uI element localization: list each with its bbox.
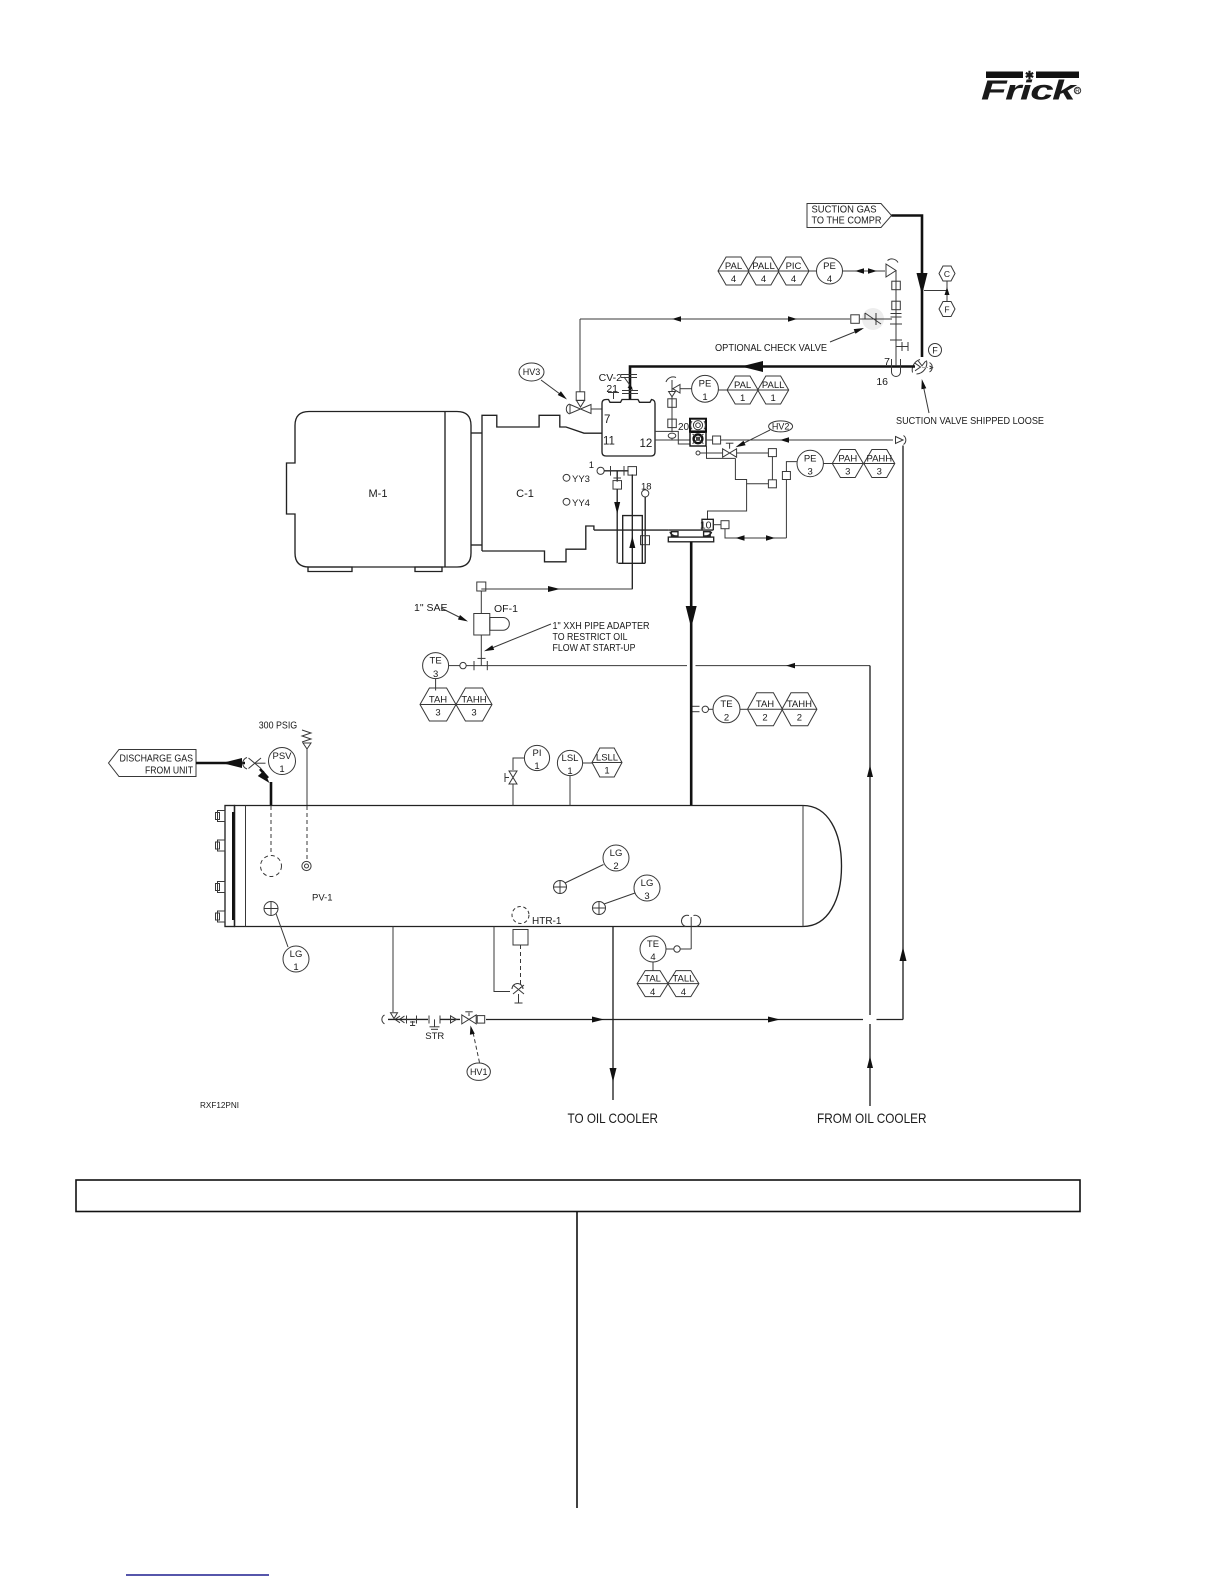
wire port 12 line — [655, 439, 690, 441]
svg-text:3: 3 — [471, 708, 476, 719]
instrument tag PALL-1 — [758, 376, 789, 404]
flange bolts — [216, 811, 226, 822]
small circle tap — [696, 451, 700, 455]
svg-text:2: 2 — [724, 713, 729, 724]
leader arrow: suction valve shipped loose — [923, 382, 930, 413]
compressor C-1 outline bottom — [482, 526, 594, 562]
svg-text:1" SAE: 1" SAE — [414, 602, 448, 614]
svg-text:F: F — [944, 305, 949, 315]
svg-text:1: 1 — [740, 393, 745, 404]
svg-text:3: 3 — [433, 669, 438, 680]
check valve at top of riser — [896, 436, 906, 445]
svg-text:TAHH: TAHH — [461, 694, 486, 705]
valve label HV3 — [519, 363, 544, 381]
pilot regulator valve on suction sense line — [886, 259, 898, 277]
wire OF-1 down — [480, 635, 482, 666]
wire vessel drain to oil pipe — [392, 927, 394, 1013]
oil injection riser into compressor — [631, 474, 633, 589]
instrument LG-3 — [634, 875, 660, 902]
compressor discharge line to flange — [594, 529, 668, 531]
svg-text:LSLL: LSLL — [596, 752, 618, 763]
svg-text:DISCHARGE GAS: DISCHARGE GAS — [120, 753, 194, 764]
wire to PE-3 — [785, 479, 787, 538]
wire sense drop to HV3 — [579, 319, 581, 392]
TE-2 tap on oil return line — [693, 705, 700, 707]
heater drain valve — [512, 984, 524, 1003]
wire oil cooler return horizontal — [696, 665, 871, 667]
svg-text:4: 4 — [731, 274, 736, 285]
svg-text:PE: PE — [804, 453, 817, 464]
discharge angle valve — [243, 758, 266, 770]
wire PE-4 to pilot valve — [843, 270, 886, 272]
sense line x=896 down to suction line — [895, 271, 897, 367]
leader HV1 — [473, 1030, 480, 1063]
instrument TE-4 — [640, 936, 666, 963]
svg-text:PIC: PIC — [786, 261, 802, 272]
sight glass LG-3 — [593, 902, 606, 915]
svg-text:1: 1 — [534, 761, 539, 772]
wire port1 drop — [616, 489, 618, 563]
sight glass LG-1 — [264, 902, 278, 916]
instrument tag TAH-3 — [420, 688, 456, 721]
riser x=903 down to oil pipe — [902, 446, 904, 1020]
port 21 stub — [608, 392, 619, 394]
relief pilot above port 7 — [666, 377, 680, 397]
svg-text:4: 4 — [681, 987, 686, 998]
wire main oil pipe — [486, 1019, 863, 1021]
instrument tag PIC-4 — [778, 257, 809, 285]
svg-text:TAL: TAL — [644, 973, 661, 984]
instrument PE-4 — [817, 258, 843, 285]
svg-text:STR: STR — [425, 1031, 444, 1042]
svg-text:4: 4 — [791, 274, 796, 285]
sight glass LG-2 — [554, 881, 567, 894]
instrument tag TAL-4 — [637, 971, 668, 998]
svg-text:PV-1: PV-1 — [312, 893, 333, 904]
oil filter OF-1 — [480, 591, 482, 613]
valve HV2 — [723, 449, 737, 457]
heater HTR-1 — [512, 907, 529, 924]
wire port10 branch — [725, 529, 786, 539]
svg-text:1: 1 — [589, 460, 594, 471]
wire oil return (thick) down to separator — [690, 542, 693, 806]
instrument tag TAH-2 — [748, 693, 783, 726]
optional check valve symbol — [860, 313, 892, 325]
svg-text:1: 1 — [702, 392, 707, 403]
svg-text:1: 1 — [567, 766, 572, 777]
svg-text:Frick: Frick — [981, 75, 1078, 106]
tee fitting — [896, 346, 908, 348]
unloader loop — [623, 516, 643, 564]
svg-text:F: F — [932, 345, 938, 355]
CV-2 check valve symbol on thick line — [621, 375, 638, 394]
svg-text:M-1: M-1 — [369, 488, 388, 500]
svg-text:LG: LG — [290, 949, 303, 960]
table header band — [76, 1180, 1080, 1212]
svg-text:LG: LG — [610, 848, 623, 859]
wire oil supply horizontal — [481, 588, 632, 590]
svg-text:20: 20 — [678, 422, 690, 433]
svg-text:C-1: C-1 — [516, 488, 534, 500]
thick elbow into vessel — [260, 769, 268, 778]
compressor C-1 outline top — [482, 415, 602, 551]
instrument tag PAL-1 — [727, 376, 758, 404]
svg-text:FROM UNIT: FROM UNIT — [145, 765, 193, 776]
solenoid block SV — [690, 419, 706, 446]
gray highlight behind check valve — [862, 308, 884, 330]
svg-text:SUCTION GAS: SUCTION GAS — [812, 205, 877, 216]
solenoid outlet down — [707, 446, 736, 458]
instrument tag PAL-4 — [718, 257, 749, 285]
wire drop to port 10 — [708, 484, 747, 520]
instrument TE-3 — [423, 653, 449, 680]
vessel PV-1 shell — [235, 806, 842, 927]
wire line 12 continues right of solenoid — [706, 439, 713, 441]
strainer STR — [428, 1016, 430, 1024]
wire optional check valve line — [580, 318, 850, 320]
svg-text:SUCTION VALVE SHIPPED LOOSE: SUCTION VALVE SHIPPED LOOSE — [896, 415, 1044, 427]
svg-text:FROM OIL COOLER: FROM OIL COOLER — [817, 1110, 927, 1126]
wire TE-3 sense — [449, 665, 460, 667]
flow arrow left suction — [741, 361, 763, 372]
svg-text:7: 7 — [884, 356, 890, 368]
union + drain plug — [406, 1016, 408, 1024]
svg-text:4: 4 — [827, 274, 832, 285]
wire discharge gas (thick) — [196, 762, 245, 765]
sense line port7 to squares — [671, 397, 673, 432]
wire C-F connector — [924, 290, 947, 292]
orifice lens — [668, 433, 676, 438]
svg-text:21: 21 — [606, 383, 618, 395]
svg-text:OPTIONAL CHECK VALVE: OPTIONAL CHECK VALVE — [715, 342, 827, 354]
coupling housing lines — [471, 432, 482, 434]
instrument F (circle) — [929, 344, 942, 357]
motor M-1 body — [287, 412, 472, 568]
svg-text:HV2: HV2 — [772, 422, 790, 432]
PI gauge valve — [505, 771, 517, 784]
svg-text:3: 3 — [877, 467, 882, 478]
svg-text:7: 7 — [604, 414, 610, 426]
svg-text:12: 12 — [640, 438, 653, 450]
svg-text:TALL: TALL — [672, 973, 694, 984]
wire oil injection sense to check riser — [721, 439, 893, 441]
svg-text:4: 4 — [650, 987, 655, 998]
footer link line — [126, 1574, 269, 1576]
suction check housing box — [602, 400, 655, 457]
svg-text:PAL: PAL — [734, 380, 751, 391]
flag SUCTION GAS TO THE COMPR — [807, 204, 892, 228]
valve HV1 — [462, 1015, 476, 1024]
instrument tag LSLL-1 — [592, 748, 622, 777]
leader HV3 — [541, 380, 564, 397]
wire FROM OIL COOLER riser — [869, 666, 871, 1015]
valve label HV2 — [769, 421, 793, 432]
svg-text:1: 1 — [279, 764, 284, 775]
svg-text:PAL: PAL — [725, 261, 742, 272]
vessel head tangent line — [245, 806, 247, 927]
instrument PI-1 — [524, 745, 549, 772]
svg-text:TAH: TAH — [429, 694, 447, 705]
svg-text:11: 11 — [603, 436, 615, 448]
svg-text:3: 3 — [644, 891, 649, 902]
svg-text:2: 2 — [762, 713, 767, 724]
svg-text:PAHH: PAHH — [866, 453, 892, 464]
leader XXH adapter — [487, 624, 551, 650]
svg-text:3: 3 — [845, 467, 850, 478]
instrument TE-2 — [713, 696, 740, 724]
instrument tag PALL-4 — [748, 257, 779, 285]
svg-text:1: 1 — [293, 962, 298, 973]
svg-text:R: R — [1075, 88, 1080, 95]
instrument LG-2 — [603, 845, 629, 872]
wire suction gas inlet (thick) — [892, 216, 923, 358]
svg-text:HV1: HV1 — [470, 1067, 488, 1077]
svg-text:HTR-1: HTR-1 — [532, 916, 562, 927]
svg-text:2: 2 — [613, 861, 618, 872]
dashed discharge dip tube — [270, 806, 272, 855]
motor feet — [308, 567, 442, 572]
svg-text:LSL: LSL — [562, 753, 579, 764]
instrument LG-1 — [283, 946, 309, 973]
svg-text:YY3: YY3 — [572, 474, 590, 485]
flag DISCHARGE GAS FROM UNIT — [109, 750, 197, 777]
instrument tag TAHH-2 — [782, 693, 817, 726]
solenoid YY3 — [563, 474, 570, 481]
discharge flange assembly — [668, 519, 713, 542]
instrument LSL-1 — [557, 750, 582, 777]
svg-text:3: 3 — [435, 708, 440, 719]
TE-4 — [681, 915, 700, 926]
instrument PSV-1 — [269, 748, 296, 776]
svg-text:4: 4 — [650, 952, 655, 963]
svg-text:3: 3 — [808, 467, 813, 478]
svg-text:YY4: YY4 — [572, 498, 590, 509]
motor end-bell line — [444, 412, 446, 568]
valve HV3 (angle/3-way) — [566, 401, 591, 415]
suction shutoff valve (shipped loose) — [912, 360, 932, 375]
svg-text:FLOW AT START-UP: FLOW AT START-UP — [553, 642, 636, 654]
flow arrow down suction — [917, 273, 928, 295]
wire valve body drop — [735, 458, 768, 483]
svg-text:PAH: PAH — [838, 453, 857, 464]
svg-text:PALL: PALL — [752, 261, 775, 272]
svg-text:10: 10 — [700, 520, 712, 532]
Frick logo — [981, 70, 1081, 106]
center divider line — [576, 1212, 578, 1509]
svg-text:TO THE COMPR: TO THE COMPR — [812, 216, 882, 227]
svg-text:4: 4 — [761, 274, 766, 285]
hexagon F — [939, 302, 955, 317]
svg-text:PSV: PSV — [272, 751, 292, 762]
vessel left flange plate — [225, 806, 235, 927]
svg-text:16: 16 — [876, 376, 888, 388]
drain angle valve — [382, 1013, 405, 1024]
wire HV2 to squares A/B — [737, 452, 769, 454]
svg-text:PE: PE — [823, 261, 836, 272]
svg-text:HV3: HV3 — [523, 367, 541, 377]
svg-text:PI: PI — [533, 748, 542, 759]
svg-text:1: 1 — [771, 393, 776, 404]
instrument PE-3 — [797, 450, 823, 477]
svg-text:PE: PE — [699, 379, 712, 390]
inline flow triangle — [451, 1016, 457, 1023]
solenoid YY4 — [563, 498, 570, 505]
svg-text:2: 2 — [797, 713, 802, 724]
svg-text:1: 1 — [604, 766, 609, 777]
valve label HV1 — [467, 1063, 490, 1080]
leader 1 SAE — [441, 608, 465, 620]
svg-text:C: C — [944, 269, 950, 279]
leader arrow optional check valve — [830, 329, 862, 342]
svg-text:TAHH: TAHH — [787, 699, 812, 710]
PSV relief valve symbol — [302, 730, 311, 806]
wire heater drain pipe — [494, 927, 510, 992]
instrument PE-1 — [692, 375, 719, 403]
svg-text:TE: TE — [647, 939, 659, 950]
hexagon C — [939, 266, 955, 281]
instrument tag TALL-4 — [668, 971, 699, 998]
union clamp at 16 — [892, 359, 901, 377]
instrument tag TAHH-3 — [456, 688, 492, 721]
svg-text:LG: LG — [641, 878, 654, 889]
leader HV2 — [738, 430, 770, 446]
svg-text:TO OIL COOLER: TO OIL COOLER — [568, 1110, 659, 1126]
wire port to solenoid loop — [655, 431, 690, 444]
svg-text:TE: TE — [720, 699, 732, 710]
wire TO OIL COOLER drop — [612, 927, 614, 1101]
dashed PSV tube — [306, 806, 308, 860]
svg-text:TE: TE — [430, 655, 442, 666]
svg-text:TAH: TAH — [756, 699, 774, 710]
svg-text:OF-1: OF-1 — [494, 603, 518, 615]
svg-text:RXF12PNI: RXF12PNI — [200, 1100, 239, 1110]
svg-text:PALL: PALL — [762, 380, 785, 391]
instrument tag PAH-3 — [832, 450, 863, 478]
wire suction line to compressor (thick) — [630, 367, 915, 400]
svg-text:300 PSIG: 300 PSIG — [259, 720, 298, 732]
instrument tag PAHH-3 — [864, 450, 895, 478]
